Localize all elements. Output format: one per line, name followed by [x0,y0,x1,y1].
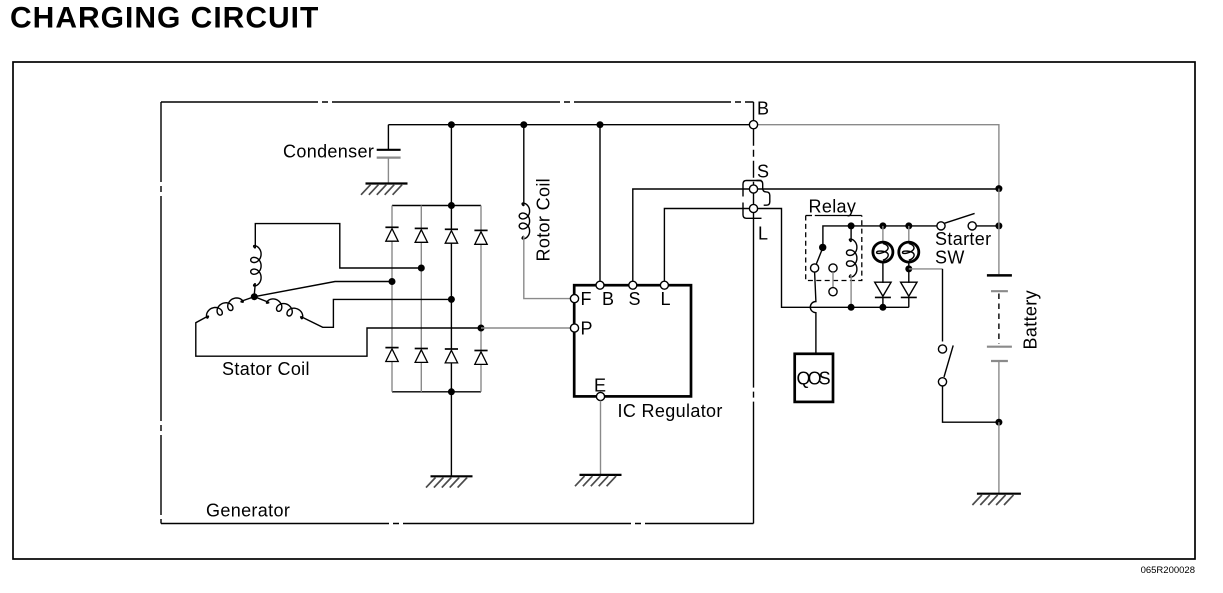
wire: QOS lead with hop over L rail [810,272,816,354]
generator boundary box (dash-dot) [161,102,754,524]
wire: regulator L pin to terminal L [664,209,749,281]
wire: D10 to L rail [908,298,910,308]
lamp 1 body [873,242,893,262]
svg-text:S: S [757,162,769,182]
wire: rectifier feed from top bus [450,125,452,206]
starter switch blade [945,213,975,223]
svg-text:Condenser: Condenser [283,142,374,162]
node: dot lamp2 top [905,222,912,229]
pin circle B [596,281,604,289]
wire: lamp2 branch to interlock switch [909,268,943,270]
svg-text:S: S [629,289,641,309]
node: dot S wire joins battery column [995,185,1002,192]
wire: P line gray segment to regulator P pin [481,327,570,329]
interlock switch blade [944,345,953,377]
svg-text:IC Regulator: IC Regulator [618,401,723,421]
wire: starter switch to battery column [976,225,999,227]
diode D2 [415,227,428,229]
diode D1 (upper row) [385,226,398,228]
svg-text:P: P [581,319,593,339]
node: dot lamp1 top [879,222,886,229]
svg-text:Battery: Battery [1021,290,1041,349]
diode D9 under lamp 1 [875,282,891,296]
diode D5 (lower row) [385,347,398,349]
svg-text:CHARGING CIRCUIT: CHARGING CIRCUIT [10,2,319,35]
wire: phase U winding to neutral node [254,283,255,294]
lamp 1 filament [877,243,889,260]
lamp 2 filament [902,243,914,260]
ground below battery [977,493,1021,495]
relay second contact circle [829,264,837,272]
condenser lower lead (gray) [387,158,389,184]
wire: interlock switch to battery negative lead [943,386,999,422]
battery negative lead (gray) [998,361,1000,422]
wire: terminal S to battery column (black) [758,188,999,190]
relay coil winding [847,239,857,277]
wire: battery column (gray) [998,189,1000,275]
lamp 2 bottom lead [908,262,910,283]
rectifier column 4 wire [480,206,482,231]
battery dashed middle [998,294,1000,345]
wire: rectifier to earth [450,392,452,477]
diode D8 [474,350,487,352]
svg-text:Stator Coil: Stator Coil [222,359,310,379]
node: dot rectifier top bus [448,202,455,209]
svg-text:Relay: Relay [809,197,857,217]
starter switch contact right [968,222,976,230]
pin circle L [660,281,668,289]
stator coil phase V (left) winding [207,298,244,318]
pin circle F [570,295,578,303]
node: junction dot top bus / rotor coil [520,121,527,128]
wire: regulator S pin to terminal S [633,189,750,281]
ground below rectifier [431,475,473,477]
relay second contact stub (gray) [832,272,834,288]
rectifier column 2 wire [420,206,422,229]
wire: D9 to L rail [882,298,884,308]
rectifier bottom bus [392,391,481,393]
relay contact blade [816,251,822,265]
rotor coil top lead [523,125,525,206]
svg-text:B: B [757,99,769,119]
diode D6 [415,348,428,350]
relay contact circle (to QOS) [811,264,819,272]
relay second contact end circle [829,288,837,296]
node: dot lamp2 / key-switch branch [905,265,912,272]
node: dot D9 on L rail [879,304,886,311]
rotor coil winding [519,203,529,239]
lamp 1 bottom lead [882,262,884,283]
wire: top bus gray part, B to battery column [758,125,999,189]
rectifier top bus [392,205,481,207]
connector bracket right half [757,181,770,206]
node: dot rectifier bottom bus [448,388,455,395]
node: stator neutral point [251,293,258,300]
rotor coil bottom lead (gray) to F pin [524,236,571,299]
condenser C lead [387,125,389,149]
node: dot coil top on switched rail [848,222,855,229]
rectifier column 3 wire [450,206,452,230]
node: dot column4 phase tap / P line [478,325,485,332]
rectifier column 1 wire [391,206,393,228]
IC regulator U1 box [574,285,691,396]
svg-text:Starter: Starter [935,229,991,249]
lamp 2 body [899,242,919,262]
connector bracket left half [743,181,762,219]
svg-text:SW: SW [935,248,965,268]
wire: neutral to column1 [254,282,392,297]
condenser C plates [377,149,401,151]
pin circle S [629,281,637,289]
svg-text:QOS: QOS [797,369,832,389]
wire: phase V routing to column4 and P [196,297,481,357]
stator coil phase W (right) winding [267,299,303,319]
wire: E pin to earth (gray) [600,401,602,475]
relay contact pivot dot [819,244,826,251]
wire: phase W routing to column3 [254,297,451,328]
battery plate long + [987,274,1012,277]
terminal circle S [749,185,757,193]
wire: battery to earth (gray) [998,422,1000,494]
diode D3 [445,228,458,230]
lamp 1 top lead (gray) [882,226,884,243]
node: junction dot top bus / rectifier feed [448,121,455,128]
diode D4 [474,229,487,231]
node: junction dot top bus / regulator B [597,121,604,128]
svg-text:L: L [661,289,671,309]
relay coil top lead [850,226,852,242]
stator coil phase U (top) lead [255,224,421,268]
pin circle P [570,324,578,332]
interlock switch lower contact [938,378,946,386]
battery plate short 2 (gray) [991,360,1008,362]
relay contact arm lead [823,226,851,248]
relay dashed enclosure [806,216,862,281]
node: dot column2 phase tap [418,265,425,272]
diode D10 under lamp 2 [901,282,917,296]
svg-text:L: L [758,224,768,244]
pin circle E [596,392,604,400]
svg-text:Generator: Generator [206,501,290,521]
node: dot battery negative junction [995,419,1002,426]
wire: regulator B pin to top bus [599,125,601,281]
diode D7 [445,348,458,350]
QOS box [795,354,833,402]
interlock switch upper contact [938,345,946,353]
svg-text:B: B [602,289,614,309]
node: dot starter wire on battery column [995,222,1002,229]
relay coil bottom lead (gray) [850,275,852,308]
node: dot column1 neutral tap [389,278,396,285]
battery plate short (gray) [991,290,1008,292]
svg-text:065R200028: 065R200028 [1141,565,1195,576]
wire: terminal L to relay bottom rail [758,209,909,308]
node: dot column3 phase tap [448,296,455,303]
stator coil phase U winding [251,246,261,286]
terminal circle B on generator edge [749,121,757,129]
wire: switched rail relay to starter switch [851,225,937,227]
ground below condenser [366,182,408,184]
svg-text:F: F [581,289,592,309]
ground below regulator [580,474,622,476]
battery plate long (gray) [987,346,1012,348]
wire: top bus black part (condenser to terminal B) [388,124,749,126]
terminal circle L [749,204,757,212]
node: dot coil bottom on L rail [848,304,855,311]
svg-text:Rotor Coil: Rotor Coil [534,178,554,262]
lamp 2 top lead (gray) [908,226,910,243]
starter switch contact left [937,222,945,230]
